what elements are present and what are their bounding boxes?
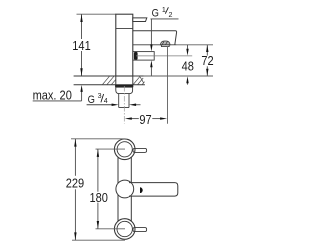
svg-text:72: 72 xyxy=(201,53,214,68)
wire: 180 bottom extension line xyxy=(96,228,126,230)
wire: 229 top extension line xyxy=(71,138,125,140)
svg-text:G: G xyxy=(152,8,159,20)
bottom handle escutcheon fill xyxy=(114,219,135,240)
faucet body (side view) xyxy=(116,14,133,76)
top handle inner circle xyxy=(117,142,132,157)
bottom handle escutcheon outer xyxy=(114,219,135,240)
dimension 229 line xyxy=(74,139,76,240)
label G 3/4 slash xyxy=(101,94,104,102)
svg-text:97: 97 xyxy=(139,112,152,127)
svg-text:229: 229 xyxy=(66,175,85,190)
top handle escutcheon fill xyxy=(114,139,135,160)
dimension 72 arrow up xyxy=(206,45,208,52)
stub lower arrow up xyxy=(150,60,152,67)
washer under deck xyxy=(115,85,133,87)
stub lower arrow line xyxy=(150,67,152,76)
dimension 141 line xyxy=(81,14,83,76)
plan view body bar xyxy=(118,149,131,229)
dimension 48 arrow down xyxy=(186,49,188,56)
spout underside line xyxy=(133,44,177,46)
top handle lever (plan) xyxy=(133,148,147,152)
stub dark collar xyxy=(134,52,138,60)
wire: 141 top extension line xyxy=(77,13,116,15)
mounting nut xyxy=(116,87,133,93)
spout (side view) xyxy=(133,31,177,45)
G 3/4 right arrow left xyxy=(129,104,136,106)
dimension 48 lower arrow line xyxy=(187,83,189,85)
dimension 180 arrow down xyxy=(97,221,99,229)
wire: 180 top extension line xyxy=(96,148,126,150)
spout outlet extension line vertical xyxy=(167,47,169,124)
max. 20 underline xyxy=(33,100,82,102)
G 3/4 leader arrow right xyxy=(112,104,119,106)
G 3/4 right arrow line xyxy=(136,104,141,106)
svg-text:max. 20: max. 20 xyxy=(33,87,73,102)
bottom handle lever (plan) xyxy=(133,228,147,232)
dimension 141 arrow up xyxy=(80,14,82,22)
G 3/4 leader underline xyxy=(87,104,112,106)
top handle escutcheon outer xyxy=(114,139,135,160)
dimension 141 arrow down xyxy=(80,68,82,76)
svg-text:2: 2 xyxy=(169,11,173,19)
aerator dome xyxy=(160,41,170,45)
G 1/2 leader line xyxy=(150,19,152,45)
max. 20 arrow up xyxy=(80,85,82,92)
dimension 48 arrow up xyxy=(186,76,188,83)
svg-text:4: 4 xyxy=(104,97,108,105)
threaded shank xyxy=(119,94,129,108)
dimension 97 line xyxy=(130,118,162,120)
dimension 229 arrow up xyxy=(74,139,76,147)
svg-text:141: 141 xyxy=(72,38,91,53)
dimension 48 upper arrow line xyxy=(187,45,189,49)
dimension 229 arrow down xyxy=(74,232,76,240)
svg-text:3: 3 xyxy=(98,92,102,100)
shower outlet stub xyxy=(133,52,154,61)
label G 1/2 slash xyxy=(165,7,168,13)
svg-text:180: 180 xyxy=(89,190,108,205)
middle spout circle outline xyxy=(116,180,134,198)
lever handle (side view) xyxy=(133,18,147,22)
aerator hatch marks xyxy=(162,42,167,45)
deck bottom line xyxy=(74,84,145,86)
stub centerline / 48 extension line xyxy=(136,55,192,57)
G 1/2 leader arrow down xyxy=(150,44,152,51)
dimension 72 arrow down xyxy=(206,69,208,76)
wire: 229 bottom extension line xyxy=(72,239,125,241)
body cap joint line xyxy=(116,28,133,30)
aerator base ring xyxy=(161,45,169,47)
deck hatching xyxy=(103,76,145,84)
dimension 180 line xyxy=(97,149,99,229)
svg-text:48: 48 xyxy=(182,59,195,74)
deck top line xyxy=(74,75,144,77)
wire: deck top extension to right dims xyxy=(144,75,214,77)
shank sides through deck xyxy=(116,76,133,85)
middle spout circle fill xyxy=(116,180,134,198)
label G 1/2 underline xyxy=(151,18,179,20)
dimension 97 arrow left xyxy=(125,117,132,119)
dimension 180 arrow up xyxy=(97,149,99,157)
wire: 72 top extension line xyxy=(177,44,213,46)
dimension 97 arrow right xyxy=(160,117,167,119)
bottom handle inner circle xyxy=(117,221,132,236)
deck break line xyxy=(140,77,144,83)
dimension 72 line xyxy=(206,45,208,76)
max. 20 dimension line xyxy=(81,91,83,101)
shank centerline xyxy=(123,86,125,124)
diverter mark on spout xyxy=(140,187,143,193)
spout bar (plan) xyxy=(129,183,178,197)
